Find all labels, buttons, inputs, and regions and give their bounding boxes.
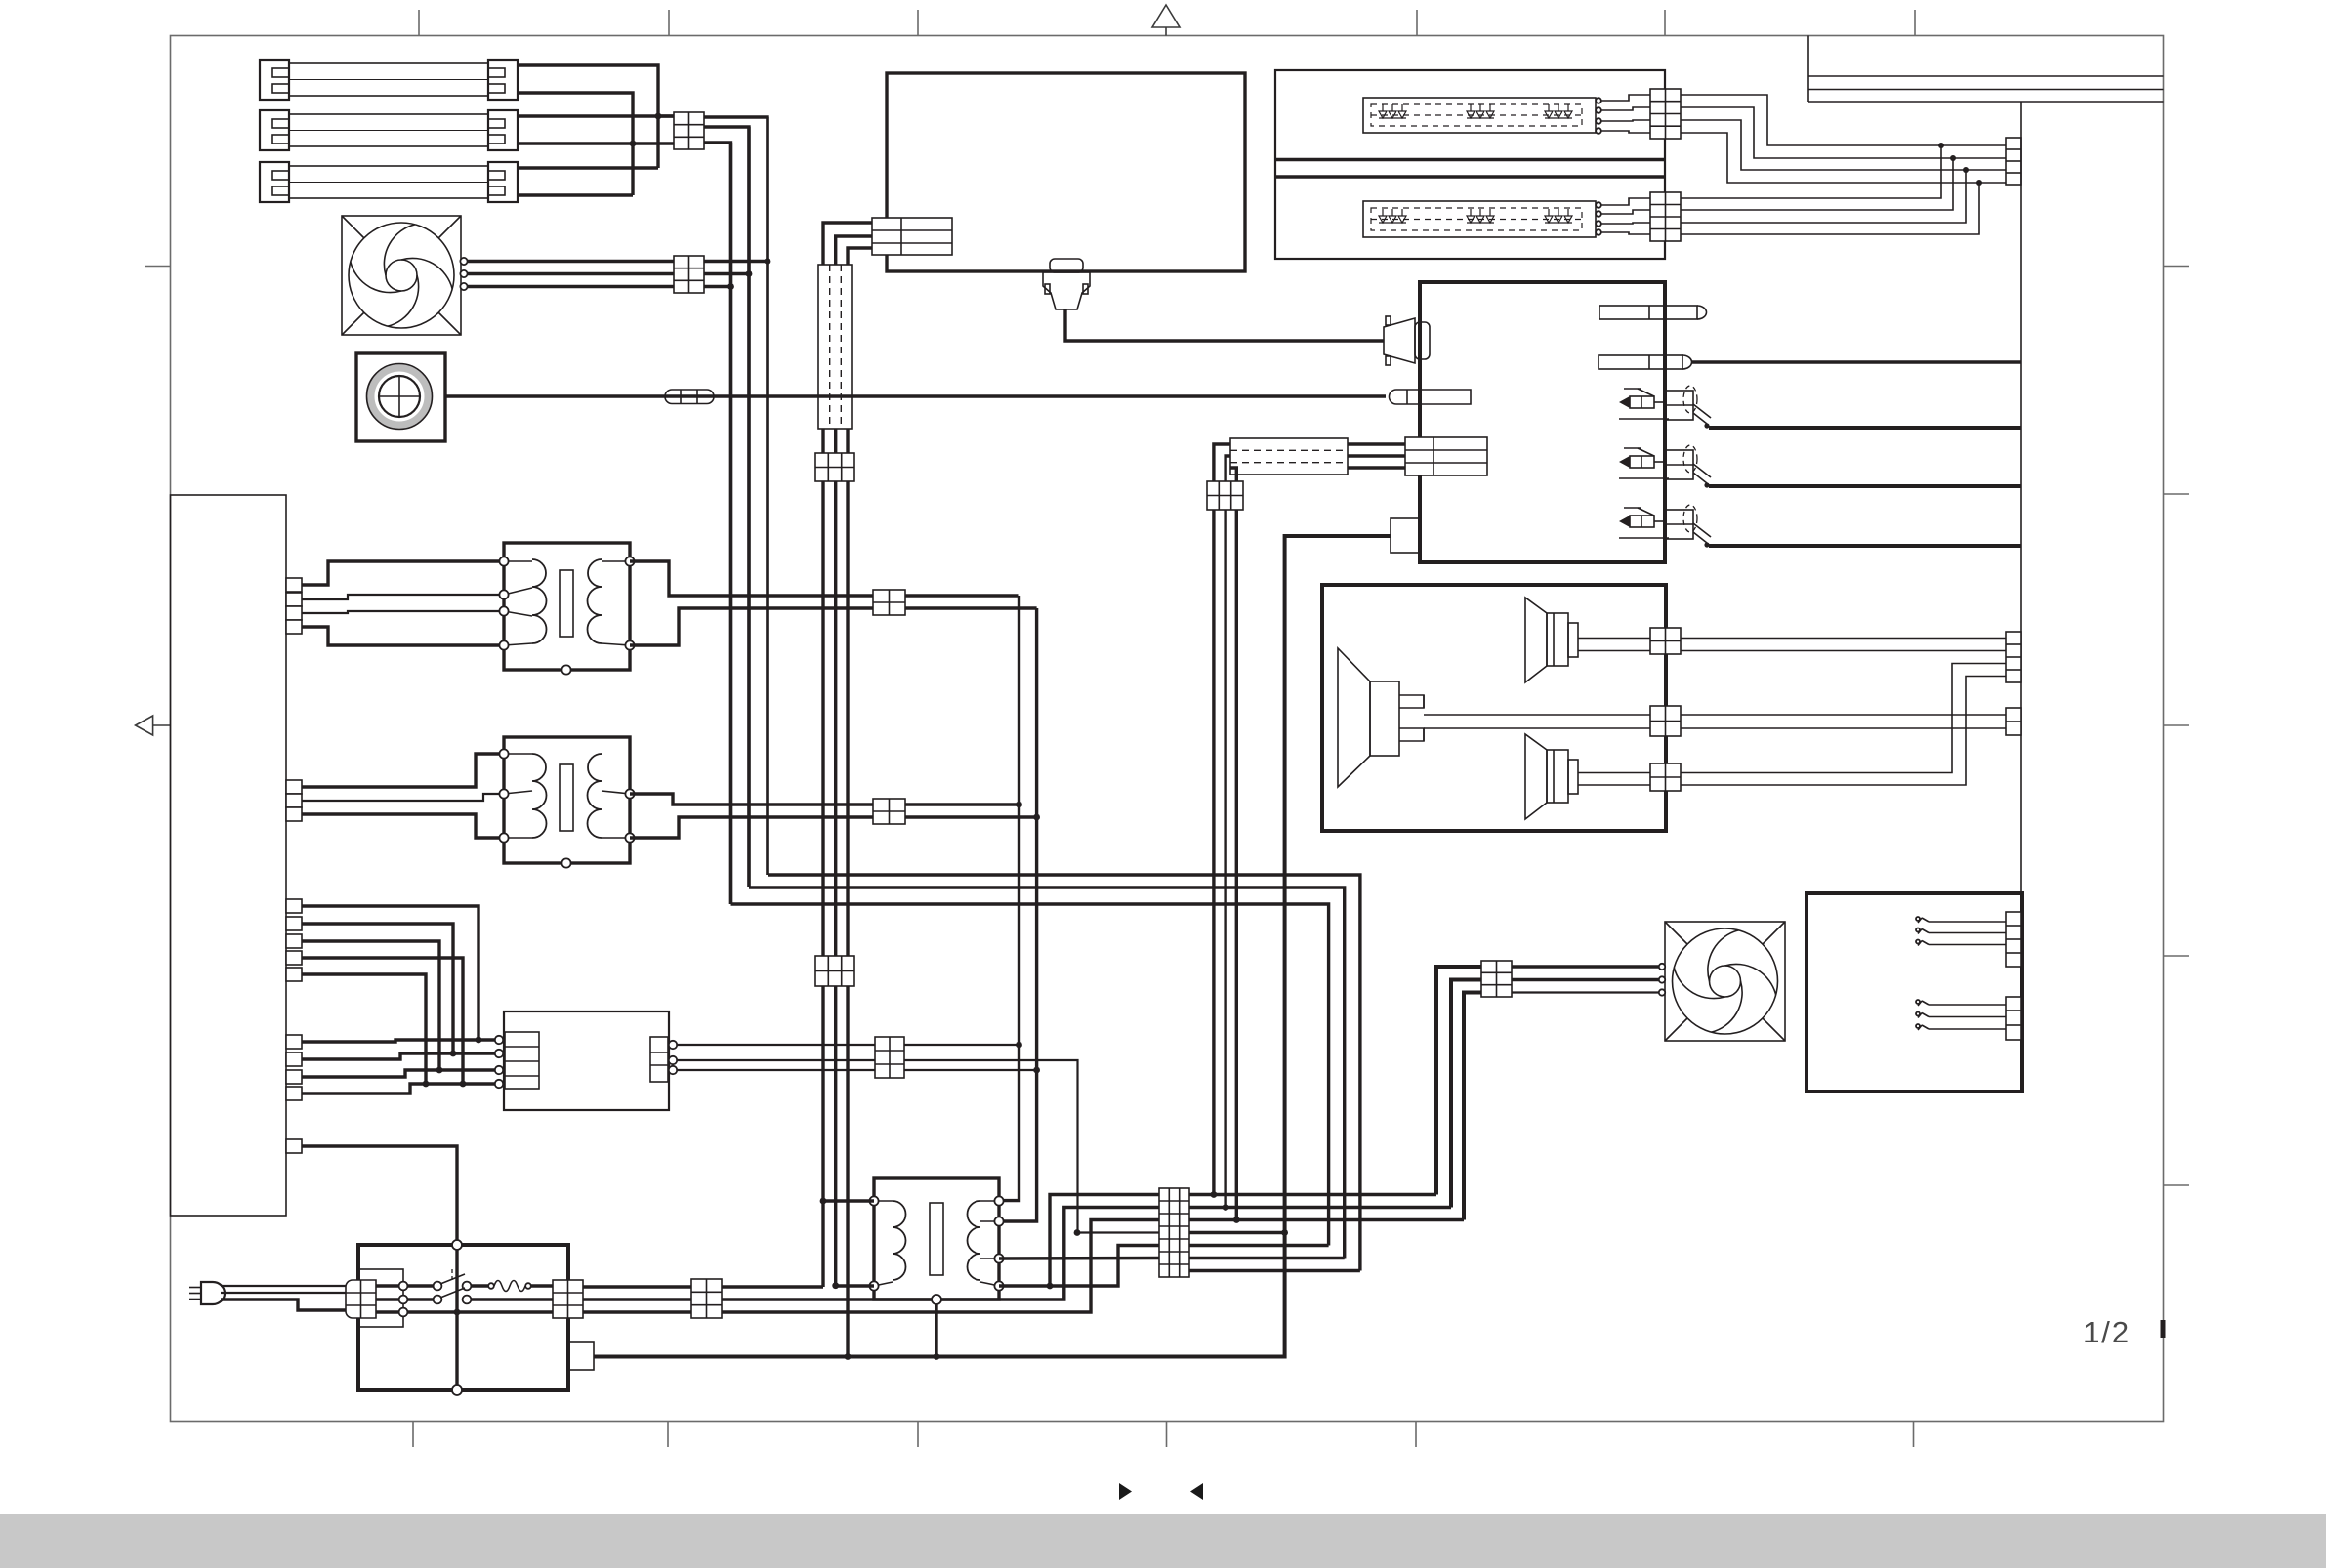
tick right 1: [2164, 266, 2190, 268]
connector stack S1: [2006, 632, 2021, 682]
B1 left connector: [872, 218, 952, 255]
stub T2-1: [286, 780, 302, 794]
fluorescent lamp unit row1 body: [289, 63, 488, 96]
PB junction on row3: [454, 1309, 461, 1316]
stub T1-4: [286, 620, 302, 634]
stack row6 wire right: [1189, 1257, 1345, 1259]
tick bottom 4: [1166, 1422, 1168, 1448]
wire SB out 2: [677, 1060, 1078, 1233]
wires left of J7 down 3: [1464, 993, 1481, 1220]
switch contact row2: [407, 1288, 471, 1303]
junction block J2 fan1: [674, 256, 704, 293]
mains cable bottom: [221, 1300, 346, 1310]
LED strip1 diode group left: [1379, 104, 1406, 118]
woofer wires: [1424, 715, 1650, 728]
wires C1 stepped down: [1681, 95, 2006, 183]
fuse after switch: [471, 1281, 553, 1292]
wire T1a down to T3: [999, 596, 1019, 1201]
node D2 drop on row3: [1233, 1217, 1240, 1223]
switch unit 1 arrow symbol: [1619, 389, 1669, 419]
switch unit 2 output wire: [1709, 484, 2022, 488]
node duct drop2 on T3 wire: [832, 1282, 839, 1289]
B2 left lower connector: [1405, 437, 1487, 475]
fan FM2 pins: [1659, 964, 1665, 996]
connector C2: [1650, 192, 1681, 241]
weave wire w5: [302, 974, 426, 1084]
wire duct down 1: [821, 429, 824, 1287]
wire J2 out 3: [704, 285, 731, 288]
wire B1 conn to duct 3: [848, 248, 872, 265]
tick top 1: [418, 10, 420, 36]
T2 node circles: [499, 749, 634, 867]
wire lamp3 bottom: [518, 193, 633, 196]
mains plug prongs: [189, 1288, 201, 1300]
fan FM2: [1665, 922, 1785, 1041]
node SB out3 on T2 vertical: [1033, 1067, 1040, 1074]
wire SB out 3: [677, 1069, 1037, 1071]
tick left 1: [145, 266, 171, 268]
connector stack S2: [2006, 708, 2021, 735]
stub T1-2: [286, 593, 302, 606]
wire T3 right bottom to stack: [999, 1246, 1159, 1287]
wire T3 left top from duct riser: [823, 1199, 874, 1202]
stub S-4: [286, 1087, 302, 1100]
LED strip 2: [1363, 201, 1596, 237]
wires left of J7 down 1: [1436, 967, 1481, 1195]
stack row1 wire right: [1189, 1193, 1436, 1196]
wire lamp1 top: [518, 65, 658, 168]
wire T3 bottom node down: [935, 1304, 937, 1357]
wire T1 output top: [630, 561, 1019, 596]
antenna bar 2: [1599, 355, 1692, 369]
node D2 drop on row1: [1211, 1191, 1218, 1198]
bus V3 vertical: [766, 117, 768, 875]
fan FM2 junction block J7: [1481, 961, 1512, 997]
connector C1: [1650, 89, 1681, 139]
tick right 4: [2164, 955, 2190, 957]
stack row3 wire right: [1189, 1218, 1464, 1221]
node D2 drop on row2: [1223, 1204, 1229, 1211]
B4 connector 1: [2006, 912, 2021, 967]
stub W-3: [286, 934, 302, 948]
lamp row3 body: [289, 166, 488, 198]
junction lamp wires node A: [655, 113, 662, 120]
fan FM1 pin 2: [460, 270, 467, 277]
junction block J5: [1207, 481, 1243, 510]
wire stub to T2 node2: [302, 794, 504, 801]
stub T2-3: [286, 807, 302, 821]
B2 bottom tab: [1391, 518, 1420, 553]
B4 element wires 1: [1916, 917, 2006, 946]
stub W-5: [286, 968, 302, 981]
stack row2 wire right: [1189, 1206, 1451, 1209]
switch unit 3 output wire: [1709, 544, 2022, 548]
speaker block bottom: [1650, 763, 1681, 791]
SB right terminal circles: [669, 1041, 677, 1074]
node T1b/T2b join: [1033, 814, 1040, 821]
triangle marker left edge: [136, 716, 171, 735]
wire J1 out 1 to bus V3: [704, 117, 768, 875]
nodes C1/C2 joins: [1938, 143, 1982, 186]
junction block B: [873, 799, 905, 824]
svg-text:1/2: 1/2: [2083, 1315, 2131, 1349]
wires strip2 to C2: [1601, 198, 1650, 234]
antenna bar 1: [1599, 306, 1707, 319]
motor M1 outer circle: [367, 364, 433, 430]
stub W-2: [286, 917, 302, 930]
LED strip2 pins: [1596, 202, 1601, 235]
weave wire w3: [302, 941, 439, 1070]
wires D2 left drop 2: [1225, 456, 1230, 1208]
wire row3 to PC2: [407, 1310, 553, 1313]
PB vertical top node: [452, 1240, 462, 1250]
wire P1 from PC2: [583, 1285, 823, 1288]
PB inner sub box: [359, 1269, 403, 1327]
switch unit 2 connector: [1666, 445, 1711, 488]
junction block J9: [875, 1037, 904, 1078]
PB connector PC1: [346, 1280, 376, 1318]
top right channel line 1: [1808, 75, 2164, 77]
SB left terminal circles: [495, 1036, 503, 1088]
speaker box B3: [1322, 585, 1666, 831]
wire lamp2 top: [518, 114, 674, 117]
wires PC1 to terminals: [376, 1286, 398, 1312]
node duct drop1 on T3 wire: [820, 1198, 827, 1205]
wires D2 left drop 1: [1214, 444, 1230, 1195]
transformer T1: [504, 543, 630, 670]
SB right connector: [650, 1037, 668, 1082]
main unit box B1: [887, 73, 1245, 271]
wire T1 output bottom: [630, 608, 1037, 645]
lamp row1 right connector: [488, 60, 518, 100]
tweeter top wires: [1578, 639, 1650, 651]
wire riser to stack row1: [1050, 1195, 1159, 1287]
fan FM1 pin 1: [460, 258, 467, 265]
capsule connector on B2 left edge: [1390, 390, 1472, 404]
wire stub to T1 node1: [302, 561, 504, 585]
weave wire w2: [302, 924, 453, 1053]
switch unit 2 arrow symbol: [1619, 448, 1669, 478]
wire duct down 2: [834, 429, 837, 1286]
PB connector PC2: [553, 1280, 583, 1318]
speaker wires to stacks 5: [1681, 714, 2006, 716]
LED rail 1: [1275, 158, 1665, 161]
wire J2 out 1: [704, 260, 768, 263]
switch box SB: [504, 1011, 669, 1110]
inline capsule connector on motor wire: [665, 390, 714, 404]
woofer speaker: [1338, 648, 1424, 787]
LED strip1 diode group mid: [1467, 104, 1494, 118]
heater box B4: [1807, 893, 2022, 1092]
node T3 bottom on power loop: [934, 1353, 940, 1360]
switch contact row1: [407, 1269, 471, 1290]
motor M1 inner circle with cross: [379, 376, 420, 417]
LED strip2 diode group left: [1379, 209, 1406, 223]
mains plug body: [201, 1282, 225, 1304]
wire T3 right mid2 to stack: [999, 1257, 1159, 1260]
lamp row3 left connector: [260, 162, 289, 202]
wire fan1 to block 2: [468, 272, 674, 275]
speaker wires to stacks 4: [1681, 677, 2006, 786]
gray footer bar: [0, 1514, 2326, 1568]
weave wire w4: [302, 958, 463, 1084]
switch unit 1 connector: [1666, 386, 1711, 429]
wire lamp2 bottom: [518, 142, 674, 144]
lamp row3 right connector: [488, 162, 518, 202]
wires J7 to fan FM2: [1512, 967, 1659, 993]
wires D2 to B2 connector: [1348, 444, 1405, 468]
stub T1-3: [286, 606, 302, 620]
tick top 6: [1914, 10, 1916, 36]
border frame: [171, 36, 2164, 1422]
PB internal vertical: [455, 1245, 458, 1390]
weave junction dots: [423, 1037, 482, 1088]
lamp row2 body: [289, 114, 488, 146]
wire stub to T1 node3: [302, 611, 504, 613]
wire lamp1 bottom: [518, 93, 633, 195]
triangle marker top center: [1152, 5, 1180, 36]
tick bottom 1: [412, 1422, 414, 1448]
node duct drop3 on power loop: [845, 1353, 851, 1360]
stub S-1: [286, 1035, 302, 1049]
tweeter bottom speaker: [1525, 734, 1578, 819]
PB bottom tab: [567, 1342, 594, 1370]
wire T2 output bottom: [630, 817, 1037, 838]
wire lamp3 top: [518, 166, 658, 169]
wire motor to right box (long): [445, 394, 1386, 397]
SB left connector: [505, 1032, 539, 1089]
speaker wires to stacks 3: [1681, 664, 2006, 773]
node fan wire on bus V3: [765, 258, 771, 265]
wire B1 conn to duct 1: [823, 223, 872, 265]
wires left of J7 down 2: [1451, 980, 1481, 1208]
junction block A: [873, 590, 905, 615]
wire fan1 to block 1: [468, 260, 674, 263]
wires D2 left drop 3: [1230, 468, 1236, 1220]
switch unit 1 output wire: [1709, 426, 2022, 430]
DIN plug at B2 left: [1384, 316, 1430, 365]
wire SB out 1: [677, 1044, 1019, 1046]
mains cable top: [221, 1285, 346, 1287]
speaker block mid: [1650, 706, 1681, 736]
tick bottom 3: [917, 1422, 919, 1448]
top right channel line 2: [1808, 89, 2164, 91]
connector stack C3: [2006, 138, 2021, 185]
LED strip1 diode group right: [1545, 104, 1572, 118]
top right channel line 3: [1808, 101, 2164, 103]
PB terminal circles: [399, 1282, 408, 1317]
wire B2 tab long loop to power box: [594, 536, 1391, 1357]
tick top 3: [917, 10, 919, 36]
DIN plug under B1: [1043, 259, 1090, 309]
control box B2: [1420, 282, 1665, 562]
tweeter top speaker: [1525, 598, 1578, 682]
LED strip 1: [1363, 98, 1596, 133]
wire J2 out 2: [704, 272, 749, 275]
tick right 5: [2164, 1184, 2190, 1186]
B4 element wires 2: [1916, 1000, 2006, 1030]
PB vertical bottom node: [452, 1385, 462, 1395]
lamp row1 left connector: [260, 60, 289, 100]
wire stub to switchbox 4: [302, 1084, 495, 1093]
bus V1 vertical: [729, 143, 732, 904]
stub T2-2: [286, 794, 302, 807]
junction lamp wires node B: [630, 141, 637, 147]
tick top 4: [1416, 10, 1418, 36]
speaker wires to stacks 6: [1681, 727, 2006, 729]
T3 node circles: [869, 1196, 1003, 1304]
arrow right bottom center: [1119, 1483, 1132, 1500]
power box PB: [358, 1245, 568, 1390]
tick bottom 5: [1415, 1422, 1417, 1448]
mains cable mid: [221, 1292, 346, 1294]
wire DIN down and right: [1065, 309, 1384, 341]
tick top 5: [1664, 10, 1666, 36]
stack row4 wire right: [1189, 1231, 1285, 1234]
wire P3 from PC2: [583, 1220, 1159, 1313]
wires C2 to risers: [1681, 145, 1979, 234]
registration dash on right border: [2161, 1320, 2166, 1338]
wire fan1 to block 3: [468, 285, 674, 288]
stack row7 wire right: [1189, 1269, 1360, 1272]
wire antenna2 to right bus: [1692, 360, 2022, 363]
weave wire w1: [302, 906, 478, 1040]
wire stub to switchbox 3: [302, 1070, 495, 1077]
B4 connector 2: [2006, 997, 2021, 1040]
LED rail 2: [1275, 175, 1665, 178]
wire T3 left bottom from duct riser: [836, 1284, 874, 1287]
left distribution box: [171, 495, 287, 1216]
top right channel vertical: [1807, 36, 1809, 103]
tick right 2: [2164, 493, 2190, 495]
cable duct D1: [818, 265, 852, 429]
stub S-2: [286, 1052, 302, 1066]
motor M1 ring: [371, 368, 429, 426]
bus H3 horizontal: [731, 904, 1329, 1246]
speaker wires to stacks 1: [1681, 638, 2006, 640]
wire stub to switchbox 1: [302, 1040, 495, 1042]
tick top 2: [668, 10, 670, 36]
stub T1-1: [286, 578, 302, 592]
right bus vertical: [2020, 102, 2022, 893]
wire J1 out 3 to bus V1: [704, 143, 731, 904]
switch unit 3 connector: [1666, 505, 1711, 548]
LED strip1 pins: [1596, 98, 1601, 134]
wires strip1 to C1: [1601, 95, 1650, 133]
junction stack J6: [1159, 1188, 1189, 1277]
bus H2 horizontal: [749, 887, 1345, 1259]
cable duct D2: [1230, 438, 1348, 475]
wire P2 from PC2: [583, 1208, 1159, 1300]
tick bottom 2: [667, 1422, 669, 1448]
wire stub to power box top: [302, 1146, 457, 1245]
LED strip2 diode group mid: [1467, 209, 1494, 223]
node power loop on row4: [1281, 1229, 1288, 1236]
fan FM1 frame: [342, 216, 461, 335]
bus V2 vertical: [747, 127, 750, 887]
speaker block top: [1650, 628, 1681, 654]
wire J1 out 2 to bus V2: [704, 127, 749, 887]
node fan wire on bus V2: [746, 270, 753, 277]
tick bottom 6: [1913, 1422, 1915, 1448]
arrow left bottom center: [1190, 1483, 1203, 1500]
transformer T2: [504, 737, 630, 863]
node SBout3 on row4: [1074, 1229, 1081, 1236]
node riser on T3 bottom wire: [1047, 1283, 1054, 1290]
wire stub to T2 node3: [302, 814, 504, 838]
junction block J3: [815, 453, 854, 481]
wire row2 to PC2: [471, 1298, 553, 1300]
wire T1b down to T3: [999, 608, 1037, 1221]
node T1a/T2a join: [1016, 802, 1022, 808]
lamp row2 right connector: [488, 110, 518, 150]
stub S-3: [286, 1070, 302, 1084]
bus H1 horizontal: [768, 875, 1360, 1271]
tweeter bottom wires: [1578, 773, 1650, 786]
wire T2 output top: [630, 794, 1019, 805]
junction block J4: [815, 956, 854, 986]
wire stub to T1 node2: [302, 595, 504, 599]
switch unit 3 arrow symbol: [1619, 508, 1669, 538]
node SB out1 on T1 vertical: [1016, 1042, 1022, 1049]
stack row5 wire right: [1189, 1244, 1329, 1247]
wire B1 conn to duct 2: [836, 236, 872, 265]
speaker wires to stacks 2: [1681, 650, 2006, 652]
fan FM1 pin 3: [460, 283, 467, 290]
node fan wire on bus V1: [727, 283, 734, 290]
LED bracket frame: [1275, 70, 1665, 259]
motor M1 box: [356, 353, 445, 441]
stub single bottom: [286, 1139, 302, 1153]
T1 node circles: [499, 557, 634, 674]
stub W-4: [286, 951, 302, 965]
lamp row2 left connector: [260, 110, 289, 150]
wire stub to T1 node4: [302, 627, 504, 645]
stack row4 wire left: [1078, 1231, 1160, 1233]
wire stub to switchbox 2: [302, 1053, 495, 1059]
wire lamp mid top into block: [658, 114, 674, 117]
transformer T3: [874, 1178, 999, 1300]
junction block J8: [691, 1279, 722, 1318]
wire stub to T2 node1: [302, 754, 504, 787]
wire duct down 3: [846, 429, 849, 1357]
tick right 3: [2164, 724, 2190, 726]
stub W-1: [286, 899, 302, 913]
LED strip2 diode group right: [1545, 209, 1572, 223]
junction block J1 lamps: [674, 112, 704, 149]
